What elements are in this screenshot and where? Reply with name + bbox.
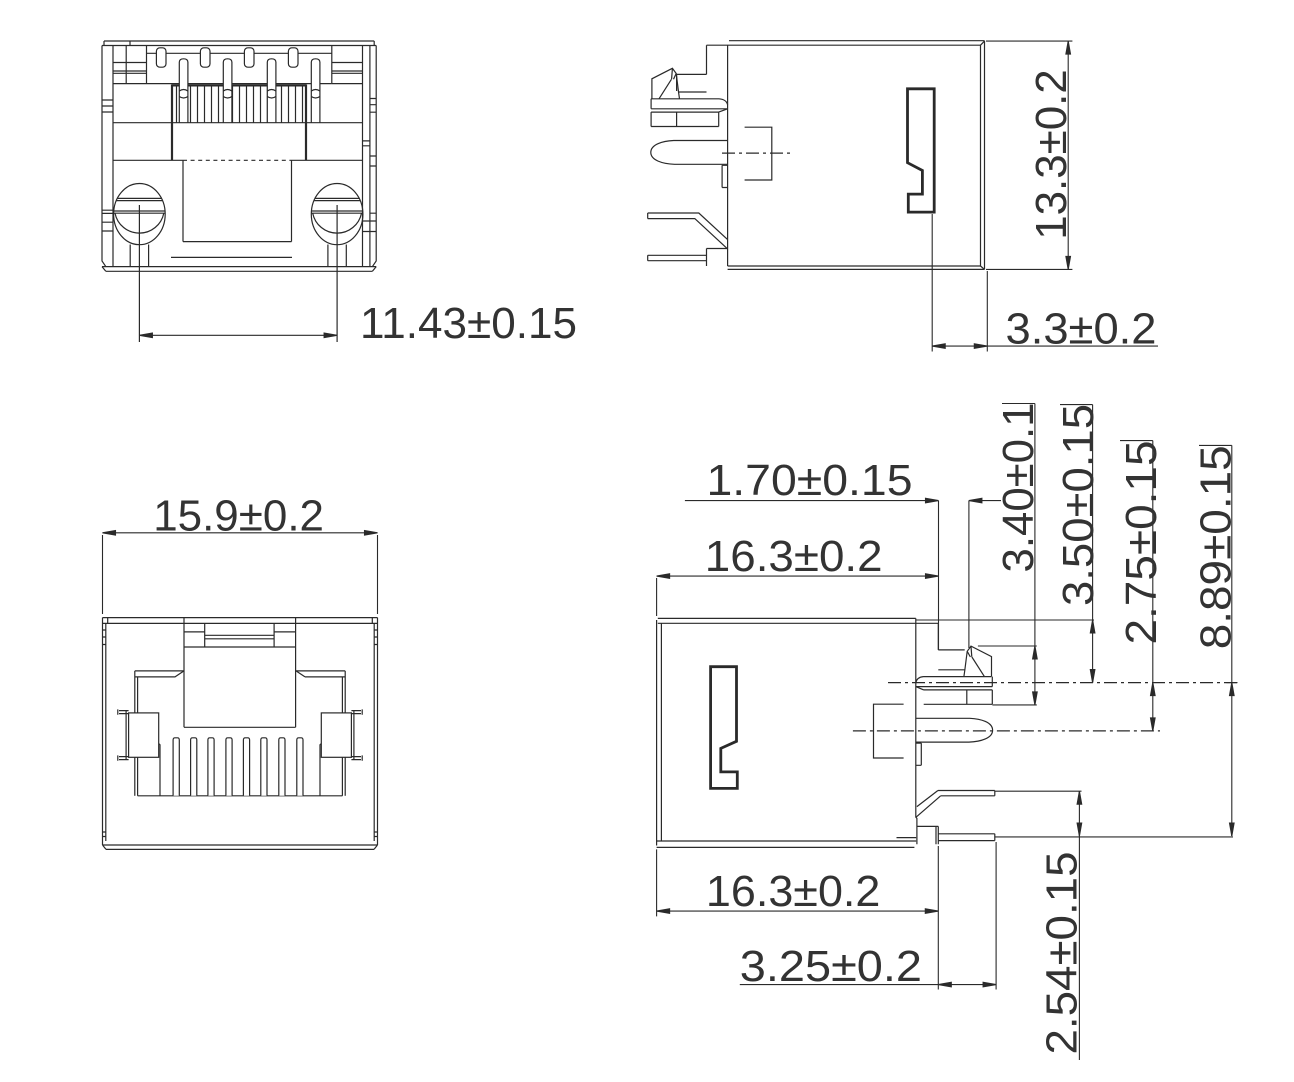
left mounting wing <box>118 709 159 760</box>
upper shelf lines beside pin block <box>113 63 363 84</box>
central cavity rectangle <box>183 160 292 241</box>
contact comb walls <box>172 85 306 161</box>
svg-text:13.3±0.2: 13.3±0.2 <box>1027 69 1076 240</box>
dim 2.75±0.15 (centerline to centerline) <box>1117 441 1166 731</box>
right screw post <box>311 184 363 343</box>
dim 8.89±0.15 (centerline to pin row) <box>995 445 1241 837</box>
angled PCB leg <box>916 791 995 818</box>
svg-text:16.3±0.2: 16.3±0.2 <box>706 867 881 916</box>
body inner walls <box>113 46 370 267</box>
spring bar 2 <box>916 687 993 705</box>
wall seam ticks left <box>102 100 113 231</box>
centerline through spring bar <box>888 682 1238 684</box>
wall seam ticks right <box>363 99 377 232</box>
left screw post <box>114 184 166 343</box>
PCB latch hook top-left <box>652 68 707 99</box>
internal contact latch profile (bold) <box>711 667 738 789</box>
svg-text:3.50±0.15: 3.50±0.15 <box>1054 404 1103 606</box>
cavity outline <box>135 671 345 796</box>
side shoulders <box>135 671 345 677</box>
dim 11.43±0.15 (view A screw spacing) <box>139 299 577 348</box>
svg-text:8.89±0.15: 8.89±0.15 <box>1191 445 1240 649</box>
contact tail stubs (short rounded) <box>156 48 298 67</box>
right mounting wing <box>321 709 362 760</box>
bullet contact finger <box>916 718 993 742</box>
bracket inside body <box>874 704 904 758</box>
svg-text:1.70±0.15: 1.70±0.15 <box>707 456 913 505</box>
spring bar 2 <box>651 109 728 127</box>
top latch window block <box>184 618 296 728</box>
dim 3.25±0.2 (pin length) <box>740 842 996 991</box>
PCB latch hook right <box>938 646 991 677</box>
svg-text:2.75±0.15: 2.75±0.15 <box>1117 441 1166 645</box>
bottom PCB pin <box>917 826 995 844</box>
body outline <box>103 618 378 850</box>
bracket inside body <box>745 127 772 180</box>
dim 2.54±0.15 (pin rows) <box>995 791 1087 1060</box>
centerline through finger <box>722 152 792 154</box>
dim 3.50±0.15 (top face to centerline) <box>916 404 1103 683</box>
small notch on body edge <box>722 165 728 187</box>
svg-text:3.25±0.2: 3.25±0.2 <box>740 942 922 991</box>
svg-text:16.3±0.2: 16.3±0.2 <box>705 532 883 581</box>
body outer frame <box>102 41 376 271</box>
body outline <box>657 618 939 847</box>
bottom PCB pin <box>648 249 728 267</box>
top-left step block <box>677 45 707 91</box>
VIEW D : side view opposite (bottom-right) <box>657 618 1238 847</box>
angled PCB leg <box>648 213 728 249</box>
body outline <box>707 41 985 270</box>
VIEW A : top view of RJ45 jack (top-left) <box>102 41 376 342</box>
pin block <box>147 46 332 86</box>
mid horizontal lines <box>113 123 363 258</box>
dim 13.3±0.2 (view B height) <box>986 41 1076 269</box>
top-right notch <box>938 623 964 650</box>
svg-text:3.40±0.1: 3.40±0.1 <box>994 403 1043 573</box>
spring bar 1 <box>916 677 993 687</box>
dim 16.3±0.2 bottom (view D) <box>657 846 939 990</box>
bullet contact finger <box>651 141 728 165</box>
centerline through finger <box>853 730 1160 732</box>
svg-text:2.54±0.15: 2.54±0.15 <box>1038 852 1087 1055</box>
wall seam ticks <box>103 630 378 837</box>
small notch on body edge <box>916 743 922 765</box>
dim 3.3±0.2 (view B latch offset) <box>932 214 1158 354</box>
contact comb teeth <box>177 85 303 122</box>
spring bar 1 <box>651 99 728 109</box>
contact slots comb <box>173 738 303 796</box>
svg-text:3.3±0.2: 3.3±0.2 <box>1006 305 1157 354</box>
dim 1.70±0.15 (view D notch) <box>685 456 1001 650</box>
VIEW B : side view (top-right) <box>648 41 985 270</box>
svg-text:15.9±0.2: 15.9±0.2 <box>153 491 324 540</box>
long contact pins <box>179 59 320 123</box>
dim 16.3±0.2 top (view D depth) <box>657 532 939 616</box>
internal contact latch profile (bold) <box>908 89 935 212</box>
dim 3.40±0.1 (hook to bar) <box>978 403 1043 705</box>
VIEW C : front view (bottom-left) <box>103 618 378 850</box>
dim 15.9±0.2 (view C width) <box>103 491 378 614</box>
svg-text:11.43±0.15: 11.43±0.15 <box>360 299 577 348</box>
